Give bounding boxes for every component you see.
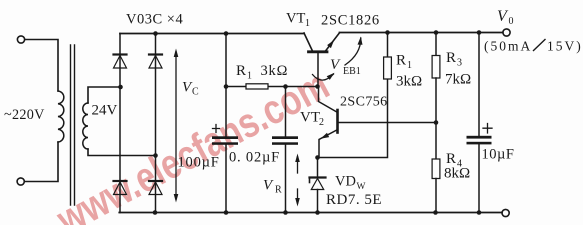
node ground at zener [315,210,320,215]
arrow Vr voltage indicator [295,154,300,207]
svg-text:100µF: 100µF [178,155,220,171]
svg-text:EB1: EB1 [343,66,361,77]
svg-text:10µF: 10µF [482,147,515,163]
node secondary bottom / bridge right AC tap [153,153,158,158]
label 0.02uF [229,150,280,166]
resistor R3 7k [432,33,440,160]
diode D4 bridge bottom-right [149,181,162,195]
svg-text:0: 0 [509,16,514,27]
arrow Veb1 arc right [345,36,363,65]
label RD7.5E [326,192,382,208]
wire top rail right (VT1 emitter to output) [340,32,503,34]
svg-text:15V): 15V) [547,39,583,54]
node rail at R1b [385,30,390,35]
node top rail at bridge right branch [153,31,158,36]
transformer primary winding [58,91,64,142]
svg-text:(50mA: (50mA [484,39,532,54]
node top rail at filter branch [224,31,229,36]
node ground at bridge [153,210,158,215]
zener diode VDw RD7.5E [310,158,326,213]
svg-text:~220V: ~220V [4,107,45,123]
label 50mA/15V [484,39,583,54]
wire bottom ground rail [119,212,502,214]
label Vr [263,178,282,196]
label VT1 [286,11,310,30]
resistor R4 8k [432,159,440,213]
node ground at R4 [433,210,438,215]
capacitor C3 10uF output [467,33,493,213]
svg-text:2: 2 [319,117,324,128]
label V0 [497,8,514,27]
wire bridge right branch [155,34,157,213]
node secondary top / bridge left AC tap [118,85,123,90]
wire bridge left branch [119,34,121,213]
label R3 7kOhm [445,50,471,88]
svg-text:R: R [446,50,456,66]
wire filter branch (top rail to 100uF) [225,34,227,137]
node rail at R3 [434,30,439,35]
label R1b 3kOhm [396,53,422,90]
node VT2 emitter / zener [315,155,320,160]
svg-text:VT: VT [286,11,305,27]
svg-text:W: W [357,182,366,192]
transistor VT1 2SC1826 [304,33,340,87]
transformer secondary winding [83,103,88,149]
label VDw [335,174,366,193]
terminal V0 output [503,29,510,36]
label 24V [92,103,118,119]
svg-text:R: R [275,185,282,196]
node divider R3/R4/VT2 base [434,120,439,125]
svg-text:R: R [236,63,246,79]
label Vc [182,80,199,98]
arrow Vc voltage indicator [174,49,179,203]
node R1 left [224,84,229,89]
diode D1 bridge top-left [114,55,127,69]
svg-text:1: 1 [247,71,252,82]
transformer core [71,45,75,205]
diode D2 bridge top-right [149,55,162,69]
wire secondary top to bridge left branch [88,87,121,103]
resistor R1 (base feed 3k) [226,84,318,89]
node ground at 100uF [224,210,229,215]
svg-text:8kΩ: 8kΩ [444,166,470,182]
svg-text:1: 1 [305,18,310,29]
capacitor C1 100uF [212,125,238,145]
wire 100uF to ground rail [225,145,227,213]
node ground at 0.02uF [283,210,288,215]
capacitor C2 0.02uF [272,87,298,213]
wire top rail left (bridge to VT1 collector) [120,33,304,35]
svg-text:3kΩ: 3kΩ [396,74,422,90]
terminal AC input top [17,36,24,43]
svg-text:7kΩ: 7kΩ [445,72,471,88]
svg-text:V: V [497,8,509,25]
svg-text:3kΩ: 3kΩ [261,63,289,79]
label 100uF [178,155,220,171]
node ground at 10uF [477,210,482,215]
label VT2 [300,110,324,129]
node 0.02uF top [283,84,288,89]
watermark www.elecfans.com [48,61,336,240]
svg-text:R: R [396,53,406,69]
terminal output return [502,209,509,216]
wire emitter node to R1b bottom [318,79,388,158]
transistor VT2 2SC756 [319,87,437,158]
label 2SC1826 [321,13,380,29]
svg-text:1: 1 [407,60,412,71]
svg-text:RD7. 5E: RD7. 5E [326,192,382,208]
svg-text:24V: 24V [92,103,118,119]
label R1 3kOhm [236,63,288,82]
resistor R1b sampling 3k [384,33,392,80]
svg-text:3: 3 [457,58,462,69]
svg-text:2SC1826: 2SC1826 [321,13,380,29]
node VT1 base [315,84,320,89]
svg-text:V03C ×4: V03C ×4 [126,12,183,28]
wire primary bottom to input terminal [25,142,59,182]
svg-text:V: V [330,57,341,73]
wire secondary bottom to bridge right branch [88,149,156,156]
label ~220V [4,107,45,123]
terminal AC input bottom [17,178,24,185]
svg-text:V: V [263,178,274,194]
arrow Veb1 arc lower [313,71,337,80]
svg-text:0. 02µF: 0. 02µF [229,150,280,166]
diode D3 bridge bottom-left [114,181,127,195]
label 2SC756 [340,95,388,110]
wire input top to primary [25,40,58,92]
svg-text:2SC756: 2SC756 [340,95,388,110]
label Veb1 [330,57,361,77]
label R4 8kOhm [444,151,470,182]
label 10uF [482,147,515,163]
label V03C ×4 [126,12,183,28]
svg-text:C: C [192,87,199,98]
svg-text:VD: VD [335,174,356,190]
node rail at 10uF [477,30,482,35]
svg-text:VT: VT [300,110,320,126]
